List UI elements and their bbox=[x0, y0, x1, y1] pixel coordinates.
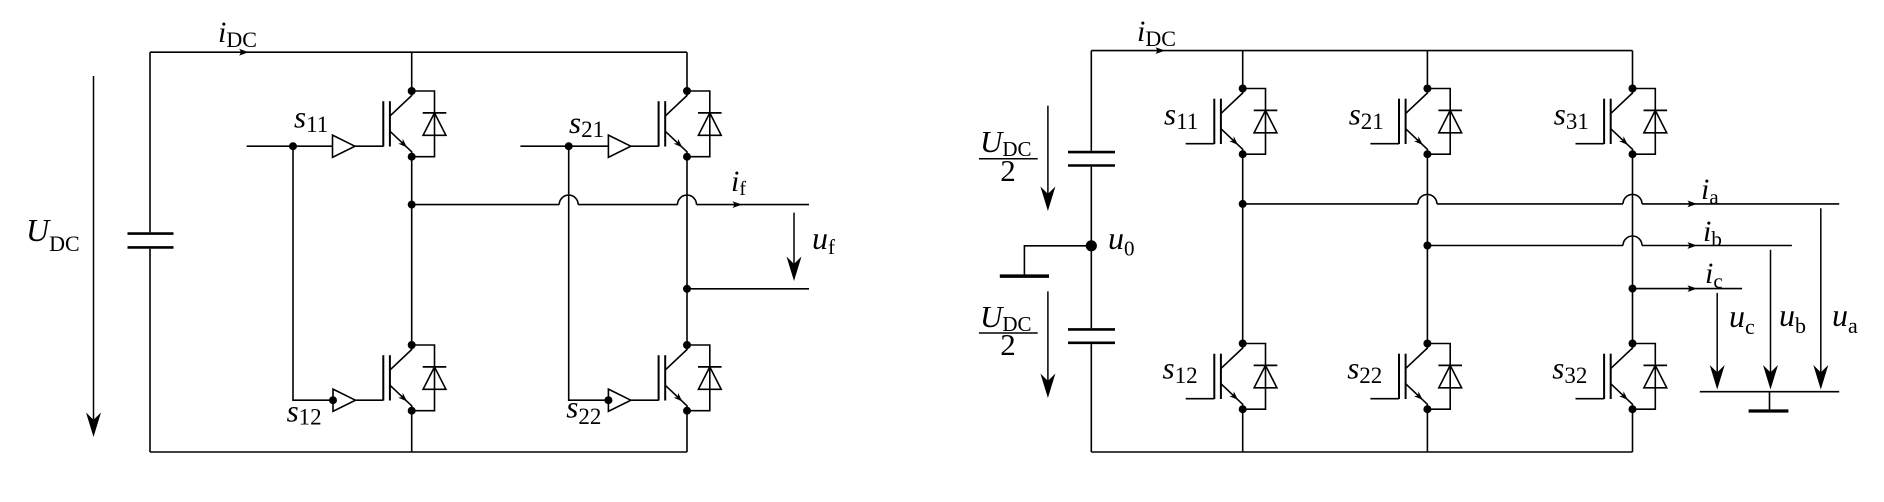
capacitor C1 (upper DC link) bbox=[1068, 152, 1115, 165]
anti-parallel diode of s32 (right) bbox=[1633, 344, 1668, 410]
wire: s22 buffer output to gate bbox=[631, 399, 659, 401]
wire hop: phase a over leg b bbox=[1418, 194, 1437, 204]
node: gate branch junction s11/s12 bbox=[289, 142, 297, 150]
wire: phase b leg mid segment bbox=[1426, 154, 1428, 245]
svg-text:uf: uf bbox=[812, 220, 835, 259]
svg-text:s21: s21 bbox=[1349, 97, 1384, 135]
wire: gate branch down to s22 bbox=[569, 146, 609, 400]
wire: phase c output rail bbox=[1633, 288, 1743, 290]
node: s22 collector junction bbox=[683, 341, 691, 349]
wire: phase a leg mid segment bbox=[1242, 154, 1244, 204]
driver buffer for s12 bbox=[333, 389, 355, 411]
wire: phase c leg lower segment bbox=[1632, 289, 1634, 344]
voltage arrow u_f bbox=[787, 213, 802, 281]
driver buffer for s21 bbox=[608, 135, 630, 157]
wire: phase c leg mid segment bbox=[1632, 154, 1634, 288]
wire: phase b leg collector lead (top rail to s21) bbox=[1426, 51, 1428, 89]
node: s21 (right) emitter junction bbox=[1423, 150, 1431, 158]
svg-text:s11: s11 bbox=[294, 99, 328, 137]
voltage arrow U_DC/2 (lower) bbox=[1040, 291, 1055, 398]
anti-parallel diode of s12 (right) bbox=[1243, 344, 1278, 410]
svg-text:s12: s12 bbox=[287, 394, 322, 430]
current arrow i_DC (right) bbox=[1156, 47, 1166, 54]
ground symbol (measurement reference) bbox=[1700, 392, 1839, 411]
wire hop: phase b over leg c bbox=[1623, 236, 1642, 246]
transistor s31 (right) (IGBT) bbox=[1604, 89, 1632, 155]
transistor s11 (right) (IGBT) bbox=[1214, 89, 1242, 155]
wire: s11 buffer output to gate bbox=[355, 145, 383, 147]
anti-parallel diode of s22 (right) bbox=[1427, 344, 1462, 410]
node: s31 (right) collector junction bbox=[1629, 85, 1637, 93]
transistor s12 (right) (IGBT) bbox=[1214, 344, 1242, 410]
label U_DC/2 (upper) bbox=[979, 124, 1038, 188]
voltage arrow U_DC bbox=[86, 76, 101, 437]
svg-text:s12: s12 bbox=[1163, 351, 1198, 388]
svg-text:uc: uc bbox=[1729, 298, 1755, 339]
node: s22 emitter junction bbox=[683, 407, 691, 415]
wire: gate stub of s22 bbox=[1370, 398, 1399, 400]
anti-parallel diode of s11 (right) bbox=[1243, 89, 1278, 155]
node: s11 (right) collector junction bbox=[1239, 85, 1247, 93]
wire: gate stub of s31 bbox=[1576, 143, 1605, 145]
node: leg 2 output junction bbox=[683, 285, 691, 293]
wire: top DC rail (right circuit) bbox=[1091, 50, 1632, 52]
wire hop over leg 2 bbox=[678, 195, 697, 205]
anti-parallel diode of s12 bbox=[412, 345, 447, 411]
svg-text:2: 2 bbox=[1000, 327, 1016, 362]
wire: left DC rail upper segment bbox=[149, 52, 151, 232]
driver buffer for s11 bbox=[333, 135, 355, 157]
wire: leg 2 collector lead (top rail to s21) bbox=[686, 52, 688, 91]
node: s21 (right) collector junction bbox=[1423, 85, 1431, 93]
transistor s32 (right) (IGBT) bbox=[1604, 344, 1632, 410]
wire hop: phase a over leg c bbox=[1623, 194, 1642, 204]
node: s12 (right) emitter junction bbox=[1239, 405, 1247, 413]
node: s21 collector junction bbox=[683, 87, 691, 95]
transistor s11 (IGBT) bbox=[383, 91, 411, 157]
wire: s21 gate input wire bbox=[520, 145, 608, 147]
anti-parallel diode of s31 (right) bbox=[1633, 89, 1668, 155]
node: s11 (right) emitter junction bbox=[1239, 150, 1247, 158]
wire: gate branch down to s12 bbox=[293, 146, 333, 400]
reference potential bar at u_0 bbox=[1000, 274, 1049, 278]
voltage arrow U_DC/2 (upper) bbox=[1040, 106, 1055, 211]
node: s12 (right) collector junction bbox=[1239, 340, 1247, 348]
node: s11 collector junction bbox=[408, 87, 416, 95]
anti-parallel diode of s11 bbox=[412, 91, 447, 157]
node: phase b output junction bbox=[1423, 242, 1431, 250]
svg-text:ua: ua bbox=[1832, 297, 1858, 338]
svg-text:u0: u0 bbox=[1108, 220, 1135, 261]
wire: DC link rail upper segment bbox=[1090, 51, 1092, 151]
wire: lower output terminal wire bbox=[687, 288, 809, 290]
wire: leg 1 mid segment (s11 emitter to output node) bbox=[411, 157, 413, 205]
wire: output rail i_f (with crossover hops) bbox=[412, 204, 560, 206]
svg-text:s11: s11 bbox=[1164, 97, 1198, 135]
wire: top DC rail (left circuit) bbox=[150, 51, 687, 53]
wire: gate stub of s12 bbox=[1186, 398, 1215, 400]
wire: phase c leg collector lead (top rail to s31) bbox=[1632, 51, 1634, 89]
svg-text:ic: ic bbox=[1705, 257, 1723, 293]
node: s22 (right) emitter junction bbox=[1423, 405, 1431, 413]
anti-parallel diode of s22 bbox=[687, 345, 722, 411]
wire: u_0 to reference potential bbox=[1024, 246, 1091, 276]
wire: phase c leg emitter lead to bottom rail bbox=[1632, 409, 1634, 452]
wire: leg 1 collector lead (top rail to s11) bbox=[411, 52, 413, 91]
node: s11 emitter junction bbox=[408, 153, 416, 161]
transistor s22 (right) (IGBT) bbox=[1399, 344, 1427, 410]
svg-text:s21: s21 bbox=[569, 105, 604, 142]
capacitor C2 (lower DC link) bbox=[1068, 329, 1115, 342]
node: s32 (right) emitter junction bbox=[1629, 405, 1637, 413]
node u_0 (capacitor midpoint) bbox=[1086, 240, 1097, 251]
svg-text:if: if bbox=[731, 165, 746, 200]
wire: gate stub of s11 bbox=[1186, 143, 1215, 145]
node: s21 emitter junction bbox=[683, 153, 691, 161]
node: s22 (right) collector junction bbox=[1423, 340, 1431, 348]
current arrow i_c bbox=[1688, 285, 1698, 292]
wire: phase b leg lower segment bbox=[1426, 246, 1428, 344]
wire: leg 2 lower segment (output node to s22) bbox=[686, 289, 688, 345]
capacitor C_DC (left circuit) bbox=[128, 234, 174, 248]
svg-text:iDC: iDC bbox=[1137, 15, 1176, 51]
wire: phase a leg lower segment bbox=[1242, 204, 1244, 344]
node: s22 buffer input junction bbox=[604, 396, 612, 404]
node: phase a output junction bbox=[1239, 200, 1247, 208]
svg-text:UDC: UDC bbox=[26, 212, 80, 256]
voltage arrow u_a bbox=[1813, 208, 1828, 389]
node: s12 emitter junction bbox=[408, 407, 416, 415]
wire: bottom DC rail (right circuit) bbox=[1091, 451, 1632, 453]
node: gate branch junction s21/s22 bbox=[565, 142, 573, 150]
wire: phase a leg emitter lead to bottom rail bbox=[1242, 409, 1244, 452]
node: s12 collector junction bbox=[408, 341, 416, 349]
wire: DC link rail between capacitors bbox=[1090, 167, 1092, 328]
wire: left DC rail lower segment bbox=[149, 249, 151, 452]
svg-text:2: 2 bbox=[1000, 153, 1016, 188]
node: s32 (right) collector junction bbox=[1629, 340, 1637, 348]
wire: leg 1 lower segment (output node to s12) bbox=[411, 205, 413, 345]
node: s12 buffer input junction bbox=[329, 396, 337, 404]
voltage arrow u_b bbox=[1763, 250, 1778, 390]
wire: leg 2 mid segment (s21 emitter to output node) bbox=[686, 157, 688, 289]
driver buffer for s22 bbox=[608, 389, 630, 411]
svg-text:ib: ib bbox=[1703, 215, 1722, 251]
wire: s12 buffer output to gate bbox=[355, 399, 383, 401]
wire: phase b output rail (with hop over leg c) bbox=[1427, 245, 1623, 247]
svg-text:s22: s22 bbox=[1347, 351, 1382, 388]
wire: s21 buffer output to gate bbox=[631, 145, 659, 147]
svg-text:s32: s32 bbox=[1552, 351, 1587, 388]
transistor s22 (IGBT) bbox=[659, 345, 687, 411]
transistor s21 (right) (IGBT) bbox=[1399, 89, 1427, 155]
current arrow i_DC (left) bbox=[239, 49, 249, 56]
svg-text:iDC: iDC bbox=[218, 16, 257, 52]
wire: gate stub of s21 bbox=[1370, 143, 1399, 145]
wire: phase b leg emitter lead to bottom rail bbox=[1426, 409, 1428, 452]
label U_DC/2 (lower) bbox=[979, 299, 1038, 362]
current arrow i_a bbox=[1688, 201, 1698, 208]
transistor s12 (IGBT) bbox=[383, 345, 411, 411]
node: phase c output junction bbox=[1629, 285, 1637, 293]
anti-parallel diode of s21 (right) bbox=[1427, 89, 1462, 155]
node: leg 1 output junction bbox=[408, 201, 416, 209]
wire: DC link rail lower segment bbox=[1090, 344, 1092, 452]
current arrow i_b bbox=[1688, 242, 1698, 249]
anti-parallel diode of s21 bbox=[687, 91, 722, 157]
wire: phase a output rail (with hops over legs b and c) bbox=[1243, 203, 1418, 205]
voltage arrow u_c bbox=[1710, 293, 1725, 390]
svg-text:s22: s22 bbox=[566, 390, 601, 430]
current arrow i_f bbox=[733, 201, 743, 208]
node: s31 (right) emitter junction bbox=[1629, 150, 1637, 158]
wire hop over s22 gate branch bbox=[559, 195, 578, 205]
wire: phase a leg collector lead (top rail to s11) bbox=[1242, 51, 1244, 89]
wire: gate stub of s32 bbox=[1576, 398, 1605, 400]
wire: leg 1 emitter lead (s12 to bottom rail) bbox=[411, 411, 413, 452]
svg-text:s31: s31 bbox=[1554, 97, 1589, 135]
wire: leg 2 emitter lead (s22 to bottom rail) bbox=[686, 411, 688, 452]
transistor s21 (IGBT) bbox=[659, 91, 687, 157]
wire: s11 gate input wire bbox=[247, 145, 333, 147]
wire: bottom DC rail (left circuit) bbox=[150, 451, 687, 453]
svg-text:ub: ub bbox=[1779, 297, 1806, 338]
svg-text:ia: ia bbox=[1701, 173, 1719, 209]
